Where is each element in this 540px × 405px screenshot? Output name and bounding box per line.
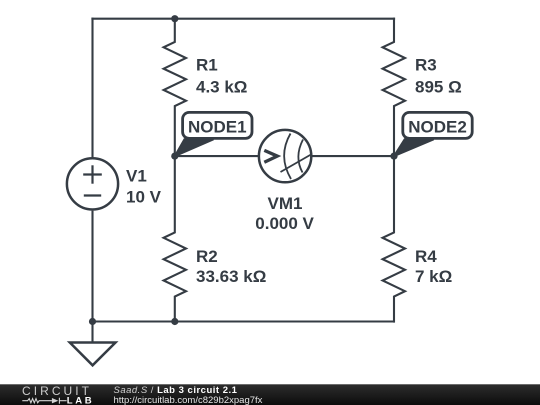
svg-text:7 kΩ: 7 kΩ [415, 267, 452, 286]
svg-text:R3: R3 [415, 56, 437, 75]
svg-text:NODE2: NODE2 [408, 118, 467, 137]
svg-text:R4: R4 [415, 247, 437, 266]
svg-text:NODE1: NODE1 [188, 118, 247, 137]
svg-text:VM1: VM1 [268, 194, 303, 213]
svg-text:895 Ω: 895 Ω [415, 78, 462, 97]
svg-text:http://circuitlab.com/c829b2xp: http://circuitlab.com/c829b2xpag7fx [114, 395, 263, 405]
svg-text:V1: V1 [126, 167, 147, 186]
svg-text:R1: R1 [196, 56, 218, 75]
svg-text:4.3 kΩ: 4.3 kΩ [196, 78, 247, 97]
svg-text:0.000 V: 0.000 V [255, 214, 314, 233]
svg-text:LAB: LAB [67, 396, 95, 405]
svg-text:10 V: 10 V [126, 188, 162, 207]
svg-text:R2: R2 [196, 247, 218, 266]
svg-text:33.63 kΩ: 33.63 kΩ [196, 267, 266, 286]
